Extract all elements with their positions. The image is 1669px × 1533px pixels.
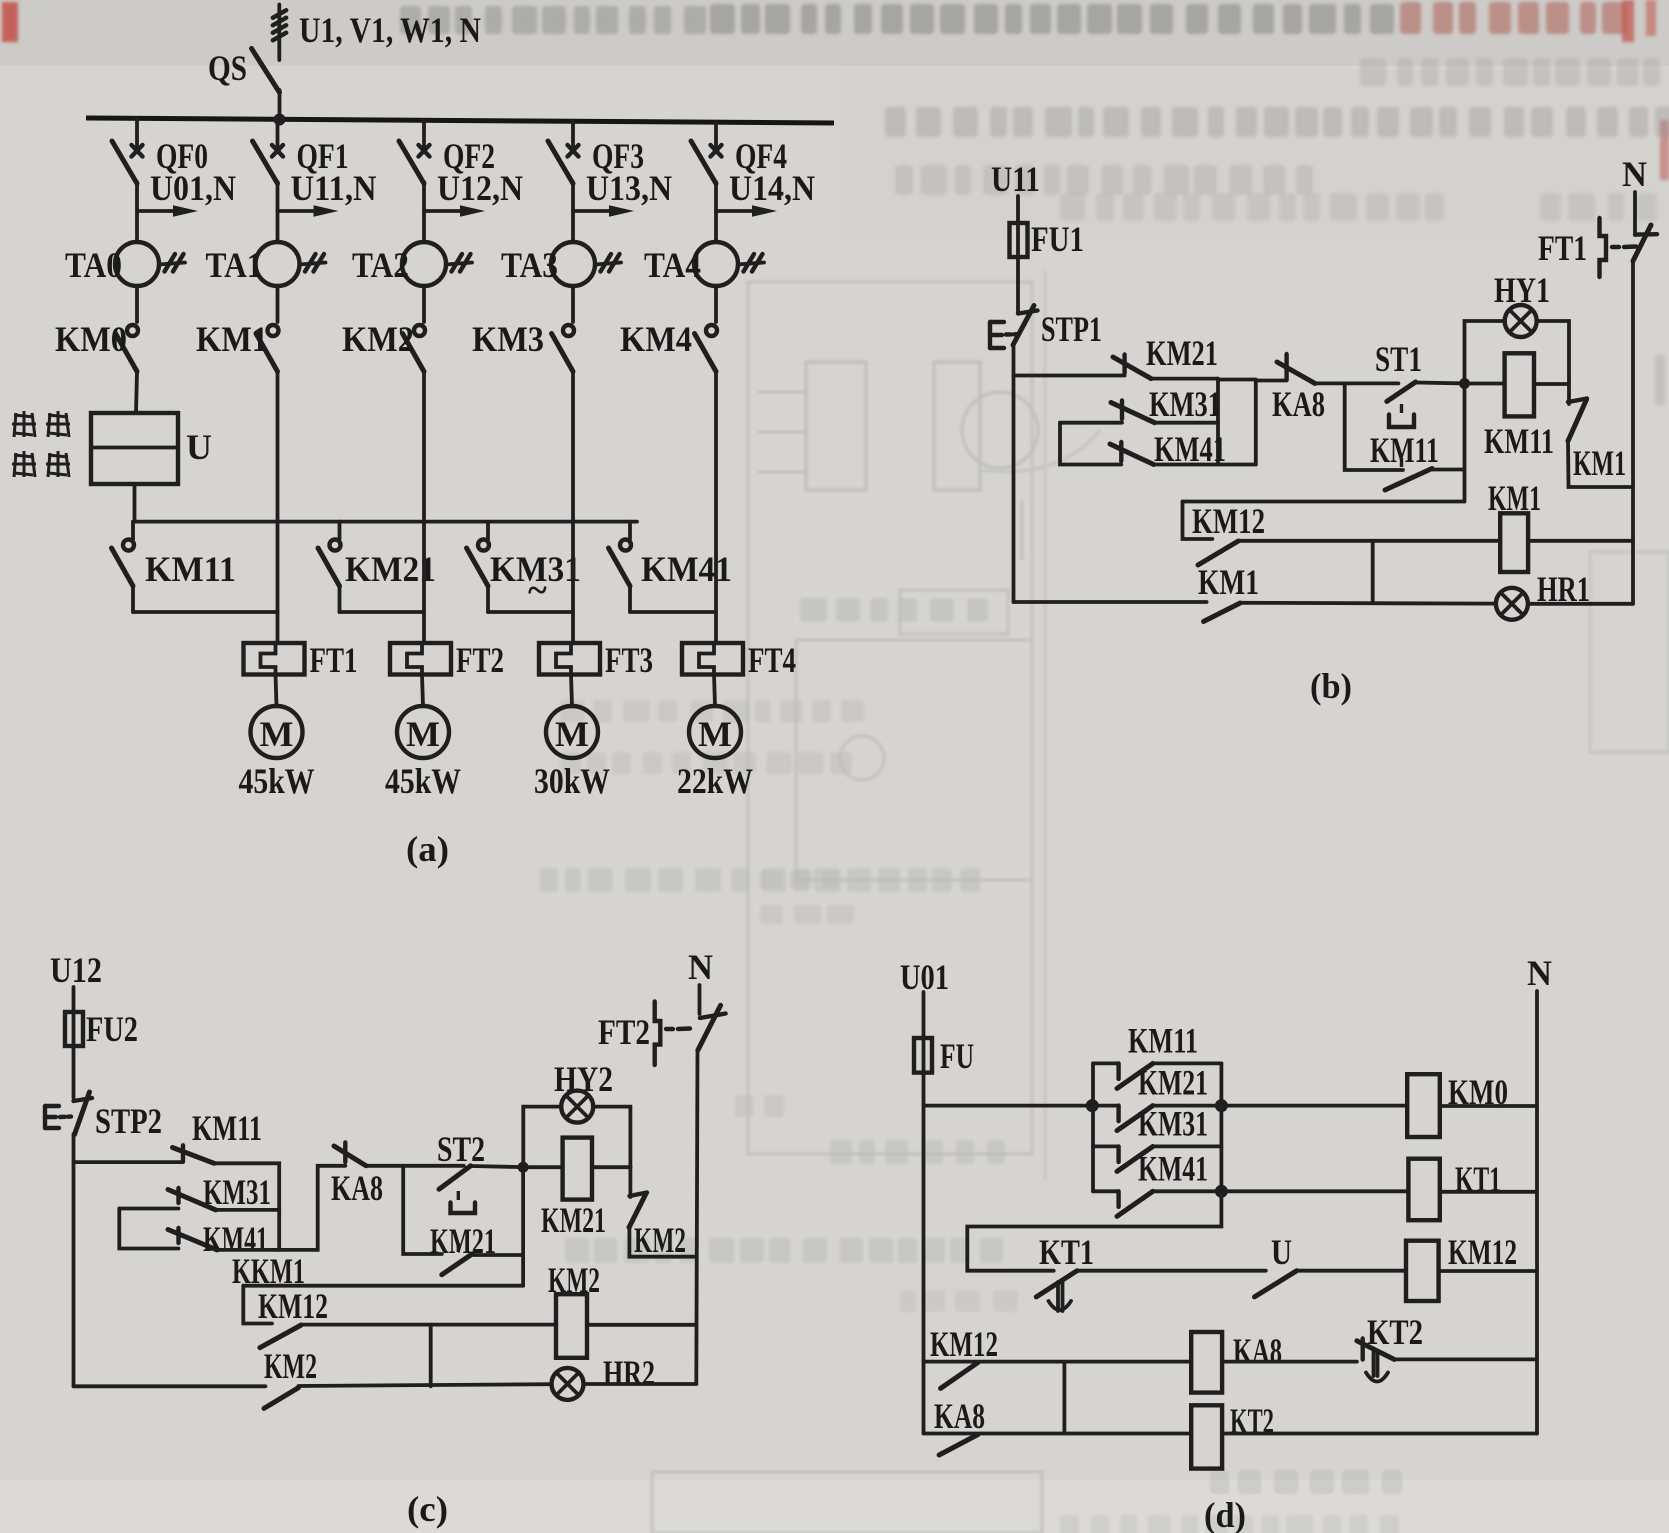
junction node (c) <box>518 1162 529 1173</box>
contactor contact KM1 <box>256 286 279 372</box>
wire N rail (c) <box>696 1050 697 1384</box>
auxiliary contact KM12 (d) <box>941 1363 979 1389</box>
svg-text:KM12: KM12 <box>258 1286 328 1326</box>
junction node d3 <box>1215 1185 1228 1198</box>
wire KM12 branch corner (c) <box>243 1286 272 1324</box>
wire KA8 rung (d) <box>924 1432 1192 1436</box>
wire KM41 out to KT1 coil <box>1221 1189 1408 1193</box>
wire rung1 <box>1014 374 1125 378</box>
svg-text:KM11: KM11 <box>1370 430 1439 470</box>
circuit breaker QF1 <box>253 119 284 242</box>
wire KM11 to motor branch <box>133 610 278 614</box>
svg-text:KM2: KM2 <box>342 319 414 359</box>
svg-text:KM11: KM11 <box>1484 421 1554 461</box>
wire left bracket (c) <box>119 1209 178 1249</box>
soft-start contactor contact KM21 <box>318 522 341 612</box>
wire KM2 contact to rail (c) <box>629 1228 696 1257</box>
svg-text:KM1: KM1 <box>1573 443 1626 483</box>
wire KM1 coil out <box>1528 539 1633 543</box>
interlock contact KM31 (d) <box>1093 1146 1221 1171</box>
svg-text:KA8: KA8 <box>1272 384 1325 424</box>
svg-text:STP2: STP2 <box>95 1101 162 1141</box>
wire bottom rail to HR2 <box>298 1384 551 1386</box>
wire HR1 to N rail <box>1528 602 1633 606</box>
svg-text:TA3: TA3 <box>501 245 558 285</box>
fuse FU <box>914 1038 932 1073</box>
wire top link <box>1218 378 1256 382</box>
wire KM3 to FT3 <box>571 372 575 644</box>
wire KM12 to KM2 coil <box>301 1323 556 1327</box>
wire U01 down <box>922 992 926 1038</box>
svg-text:TA0: TA0 <box>65 245 122 285</box>
soft-start contactor contact KM31 <box>467 522 490 612</box>
svg-text:KM2: KM2 <box>264 1346 317 1386</box>
wire N rail top <box>1633 192 1637 235</box>
current transformer TA2 <box>402 242 472 286</box>
run contact KM2 (bottom) <box>264 1388 298 1409</box>
junction node d1 <box>1086 1099 1099 1112</box>
emergency stop button STP1 <box>990 306 1038 349</box>
wire KM41 out <box>1154 463 1256 467</box>
soft-start contactor contact KM11 <box>112 522 135 612</box>
wire bottom rail (c) <box>74 1384 266 1388</box>
current transformer TA0 <box>115 242 185 286</box>
wire KM21 coil out <box>592 1165 630 1169</box>
wire HR2 to N rail (c) <box>584 1382 697 1386</box>
svg-text:KA8: KA8 <box>1233 1331 1282 1371</box>
svg-text:N: N <box>1622 154 1647 194</box>
svg-text:KM12: KM12 <box>930 1324 998 1364</box>
svg-text:KM11: KM11 <box>1128 1020 1198 1060</box>
svg-text:TA1: TA1 <box>206 245 263 285</box>
emergency stop button STP2 <box>45 1092 92 1135</box>
wire rung2 <box>1060 421 1122 425</box>
svg-text:KM1: KM1 <box>1198 562 1259 602</box>
svg-text:HR2: HR2 <box>603 1353 655 1393</box>
interlock contact KM11 (d) <box>1093 1063 1221 1088</box>
wire FU1 to STP1 <box>1016 257 1020 313</box>
interlock contact KM21 (d) <box>1093 1106 1221 1131</box>
indicator lamp HR1 <box>1496 588 1528 620</box>
svg-text:M: M <box>698 714 732 754</box>
wire left rail (d) <box>922 1073 926 1434</box>
svg-text:KM31: KM31 <box>1149 384 1221 424</box>
3-phase supply incoming line U1,V1,W1,N <box>273 5 286 61</box>
label 软起动器 (soft starter, stylized) <box>12 411 70 477</box>
contactor coil KM1 <box>1500 513 1528 572</box>
fuse FU2 <box>65 1012 83 1046</box>
svg-text:U11,N: U11,N <box>291 168 377 208</box>
svg-text:FU2: FU2 <box>86 1009 138 1049</box>
wire KT1 coil to N <box>1440 1190 1537 1194</box>
soft starter U box <box>91 413 178 484</box>
svg-text:(c): (c) <box>407 1489 448 1529</box>
wire junction vertical (c) <box>521 1167 525 1286</box>
wire KM31 out (c) <box>216 1208 279 1212</box>
relay coil KA8 <box>1191 1332 1222 1393</box>
junction node d2 <box>1215 1099 1228 1112</box>
wire FU2 to STP2 <box>72 1046 76 1098</box>
wire KT2 contact to N rail <box>1394 1358 1537 1362</box>
current transformer TA1 <box>256 242 326 286</box>
svg-text:FT1: FT1 <box>1538 228 1587 268</box>
svg-text:U12,N: U12,N <box>437 168 523 208</box>
wire line A (c) <box>243 1284 523 1288</box>
contactor contact KM4 <box>695 286 718 372</box>
contact KM11 (c) <box>173 1145 215 1163</box>
circuit breaker QF4 <box>691 122 722 242</box>
indicator lamp HR2 <box>552 1368 584 1400</box>
svg-text:30kW: 30kW <box>534 761 610 801</box>
wire left bracket KM31/KM41 <box>1060 423 1121 465</box>
svg-text:KM21: KM21 <box>541 1200 606 1240</box>
wire bottom rail (b) <box>1014 600 1207 604</box>
svg-text:U1, V1, W1, N: U1, V1, W1, N <box>299 10 481 50</box>
wire KM2 to FT2 <box>422 372 426 644</box>
wire KM11 out (c) <box>214 1163 279 1250</box>
svg-text:KM1: KM1 <box>196 319 268 359</box>
svg-text:KM11: KM11 <box>192 1108 262 1148</box>
interlock contact KM1 (b right) <box>1568 384 1587 441</box>
wire KM21 to motor branch <box>340 610 425 614</box>
interlock contact KM41 (d) <box>1093 1191 1221 1216</box>
wire lamp branch (HY2) <box>523 1107 561 1168</box>
wire KM0 to soft starter <box>136 372 137 414</box>
svg-text:KM4: KM4 <box>620 319 692 359</box>
wire soft starter output <box>133 484 137 522</box>
svg-text:U01,N: U01,N <box>150 168 236 208</box>
wire link rungs (d) <box>1063 1362 1067 1434</box>
current transformer TA4 <box>694 242 764 286</box>
svg-text:KM41: KM41 <box>641 549 732 589</box>
contact KM31 (b) <box>1111 401 1155 423</box>
svg-text:M: M <box>555 714 589 754</box>
svg-text:KA8: KA8 <box>331 1168 383 1208</box>
holding contact KM21 (c) <box>442 1254 472 1275</box>
junction node (b) <box>1459 378 1470 389</box>
svg-text:45kW: 45kW <box>385 761 461 801</box>
wire N rail <box>1631 261 1635 604</box>
svg-text:KM3: KM3 <box>472 319 544 359</box>
svg-text:HY2: HY2 <box>554 1059 613 1099</box>
svg-text:ST2: ST2 <box>437 1129 485 1169</box>
svg-text:KT1: KT1 <box>1039 1232 1094 1272</box>
wire KM41 to motor branch <box>630 610 716 614</box>
svg-text:FT4: FT4 <box>748 640 796 680</box>
svg-text:45kW: 45kW <box>239 761 315 801</box>
feeder arrow U11,N <box>278 205 339 217</box>
holding contact KM11 (b) <box>1385 469 1432 491</box>
indicator lamp HY1 <box>1505 305 1537 337</box>
motor M3 <box>546 706 598 758</box>
wire line A <box>1183 500 1465 504</box>
wire KM1 contact to N rail <box>1568 441 1633 487</box>
svg-text:M: M <box>260 714 294 754</box>
svg-text:FT3: FT3 <box>605 640 653 680</box>
wire group right link <box>1216 379 1220 465</box>
svg-text:KM41: KM41 <box>1138 1148 1208 1188</box>
wire HY1 right <box>1537 321 1569 384</box>
wire KM31 to motor branch <box>488 610 573 614</box>
svg-text:KM21: KM21 <box>1146 333 1218 373</box>
contactor coil KM12 <box>1406 1241 1439 1301</box>
wire junction to KM11 coil <box>1465 382 1505 386</box>
wire bypass branch left <box>1345 383 1403 470</box>
wire junction to KM21 coil <box>523 1165 563 1169</box>
contact KA8 (c) <box>334 1142 366 1165</box>
time-delay contact KT2 <box>1357 1339 1394 1382</box>
wire group right bracket (d) <box>1220 1063 1224 1191</box>
feeder arrow U13,N <box>573 205 634 217</box>
soft-start contactor contact KM41 <box>609 522 632 612</box>
indicator lamp HY2 <box>561 1091 593 1123</box>
svg-text:U: U <box>1271 1232 1292 1272</box>
wire link to bottom rail (c) <box>429 1325 433 1387</box>
wire KT2 coil to N rail <box>1222 1432 1537 1436</box>
svg-text:KT2: KT2 <box>1367 1312 1423 1352</box>
thermal relay contact FT1 (b) <box>1600 218 1658 277</box>
svg-text:(d): (d) <box>1204 1495 1246 1533</box>
wire U11 down <box>1016 196 1020 223</box>
svg-text:TA2: TA2 <box>352 245 409 285</box>
contactor coil KM11 <box>1505 353 1534 416</box>
svg-text:KM0: KM0 <box>55 319 127 359</box>
junction QS/bus <box>274 114 286 126</box>
wire link to KA8 <box>1256 381 1287 465</box>
svg-text:U14,N: U14,N <box>729 168 815 208</box>
svg-text:KA8: KA8 <box>934 1396 985 1436</box>
wire KM12 coil to N <box>1439 1269 1537 1273</box>
wire lamp branch (HY1) <box>1465 321 1505 384</box>
contact KM41 (b) <box>1110 442 1154 465</box>
svg-text:U12: U12 <box>50 950 102 990</box>
wire KA8 to ST1 <box>1315 381 1398 385</box>
svg-text:M: M <box>406 714 440 754</box>
svg-text:STP1: STP1 <box>1041 309 1102 349</box>
wire U12 down <box>72 987 76 1012</box>
thermal relay FT2 <box>390 643 451 675</box>
thermal relay FT4 <box>682 643 743 675</box>
wire KM11 coil out <box>1534 382 1569 386</box>
contactor coil KM0 <box>1407 1074 1440 1137</box>
circuit breaker QF3 <box>548 121 579 242</box>
wire STP2 down / left rail of c <box>72 1134 76 1386</box>
wire main rung to KM0 coil <box>1221 1104 1407 1108</box>
svg-text:KM12: KM12 <box>1192 501 1265 541</box>
wire U contact to KM12 coil <box>1297 1269 1406 1273</box>
feeder arrow U12,N <box>424 205 485 217</box>
interlock contact KM2 (c right) <box>629 1167 647 1227</box>
wire FT3 to motor M3 <box>571 675 572 707</box>
thermal relay FT1 <box>244 643 305 675</box>
wire bypass out (c) <box>470 1253 523 1257</box>
wire KM2 coil out <box>587 1323 696 1327</box>
svg-text:N: N <box>1527 953 1552 993</box>
auxiliary contact KM12 (b) <box>1198 541 1238 565</box>
wire KA8 out (c) <box>366 1164 464 1168</box>
wire ST2 out <box>471 1166 518 1167</box>
circuit breaker QF0 <box>112 118 143 242</box>
wire STP1 down / left rail of b <box>1012 344 1016 602</box>
motor M4 <box>689 706 741 758</box>
wire FT2 to motor M2 <box>422 675 423 707</box>
contactor contact KM0 <box>116 286 139 372</box>
motor M1 <box>251 706 303 758</box>
wire KM4 to FT4 <box>714 372 718 644</box>
svg-text:FT1: FT1 <box>310 640 358 680</box>
svg-text:22kW: 22kW <box>677 761 753 801</box>
svg-text:FU1: FU1 <box>1031 219 1084 259</box>
svg-text:KM21: KM21 <box>1138 1063 1208 1103</box>
wire FT1 to motor M1 <box>276 675 277 707</box>
svg-text:(a): (a) <box>406 829 449 869</box>
svg-text:N: N <box>688 947 713 987</box>
start button ST1 <box>1387 382 1416 469</box>
thermal relay FT3 <box>539 643 600 675</box>
svg-text:~: ~ <box>528 570 547 610</box>
current transformer TA3 <box>551 242 621 286</box>
svg-text:U: U <box>186 427 212 467</box>
contact KM41 (c) <box>168 1228 217 1250</box>
svg-text:TA4: TA4 <box>644 245 701 285</box>
timer coil KT2 <box>1191 1405 1222 1468</box>
time-delay contact KT1 <box>1036 1271 1077 1311</box>
feeder arrow U14,N <box>716 205 777 217</box>
wire rung1 (c) <box>74 1160 184 1164</box>
svg-text:U13,N: U13,N <box>586 168 672 208</box>
svg-text:(b): (b) <box>1310 666 1352 706</box>
wire KM12 to KM1 coil <box>1238 539 1500 543</box>
wire KM41 out (c) <box>217 1166 345 1250</box>
fuse FU1 <box>1010 223 1028 257</box>
auxiliary contact KM12 (c) <box>260 1325 301 1348</box>
svg-text:FT2: FT2 <box>456 640 504 680</box>
circuit breaker QF2 <box>399 120 430 242</box>
run contact KM1 (bottom) <box>1204 603 1241 622</box>
svg-text:KM31: KM31 <box>203 1172 271 1212</box>
wire N down (c) <box>698 985 702 1014</box>
wire HY2 right <box>594 1107 631 1168</box>
wire group left bracket (d) <box>1091 1063 1095 1191</box>
feeder arrow U01,N <box>137 205 198 217</box>
wire KM12 branch corner <box>1183 502 1213 540</box>
wire KM0 coil to N <box>1440 1104 1537 1108</box>
wire rung2 (c) <box>119 1207 178 1211</box>
wire jog to KT1 contact rung <box>967 1191 1221 1270</box>
wire KA8 coil to KT2 contact <box>1222 1360 1357 1364</box>
wire main rung (d) <box>924 1104 1093 1108</box>
contactor contact KM3 <box>552 286 575 372</box>
soft starter run contact U <box>1255 1271 1297 1297</box>
svg-text:U11: U11 <box>991 159 1040 199</box>
wire bypass branch (c) <box>403 1166 442 1254</box>
svg-text:HY1: HY1 <box>1494 270 1550 310</box>
disconnect switch QS <box>252 49 280 120</box>
wire link to bottom rail <box>1371 541 1375 602</box>
contactor coil KM21 <box>563 1138 592 1200</box>
wire KM31 out <box>1155 421 1218 425</box>
wire KM12 rung (d) <box>924 1360 1192 1364</box>
wire bypass out <box>1430 468 1464 472</box>
contact KM31 (c) <box>168 1188 216 1210</box>
timer coil KT1 <box>1408 1159 1439 1221</box>
wire junction vertical <box>1463 384 1467 502</box>
wire KT1 contact to U contact <box>1077 1269 1266 1273</box>
motor M2 <box>397 706 449 758</box>
wire bottom rail to HR1 <box>1240 601 1496 606</box>
wire N rail (d) <box>1535 991 1539 1434</box>
contactor contact KM2 <box>403 286 426 372</box>
auxiliary contact KA8 (d) <box>939 1435 978 1456</box>
svg-text:FU: FU <box>940 1036 974 1076</box>
main bus <box>86 118 834 123</box>
svg-text:FT2: FT2 <box>598 1012 650 1052</box>
contactor coil KM2 <box>556 1294 587 1358</box>
svg-text:KM2: KM2 <box>634 1220 686 1260</box>
thermal relay contact FT2 <box>655 1001 726 1065</box>
wire KM1 to FT1 <box>276 372 280 644</box>
wire FT4 to motor M4 <box>714 675 715 707</box>
contact KM21 (b) <box>1113 355 1151 379</box>
svg-text:QS: QS <box>208 48 247 88</box>
soft starter output rail <box>133 520 637 524</box>
svg-text:ST1: ST1 <box>1375 339 1422 379</box>
contact KA8 (b) <box>1277 354 1315 383</box>
wire KM21 out <box>1151 377 1218 381</box>
svg-text:KM12: KM12 <box>1448 1232 1517 1272</box>
svg-text:KM31: KM31 <box>1138 1103 1208 1143</box>
start button ST2 <box>439 1166 475 1253</box>
wire ST1 out <box>1416 381 1459 386</box>
svg-text:KM11: KM11 <box>145 549 236 589</box>
